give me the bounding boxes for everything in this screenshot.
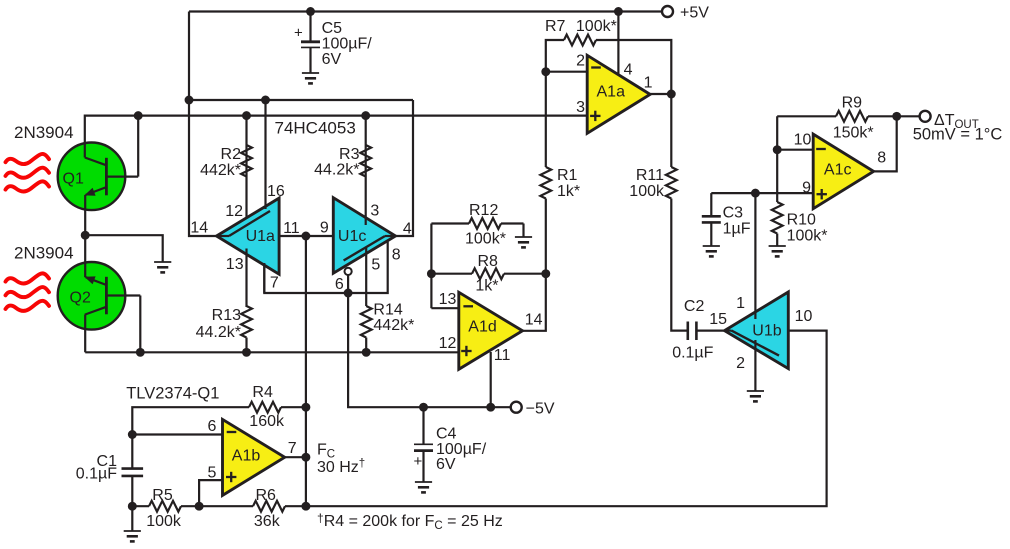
- svg-text:4: 4: [624, 62, 633, 79]
- svg-text:C5: C5: [322, 20, 343, 37]
- svg-text:8: 8: [877, 150, 886, 167]
- svg-text:R5: R5: [152, 487, 173, 504]
- svg-text:100k: 100k: [146, 513, 182, 530]
- svg-text:150k*: 150k*: [833, 125, 874, 142]
- svg-text:R9: R9: [842, 95, 863, 112]
- svg-text:30 Hz†: 30 Hz†: [317, 458, 365, 476]
- svg-text:1k*: 1k*: [475, 278, 498, 295]
- svg-text:1: 1: [736, 295, 745, 312]
- svg-text:11: 11: [283, 220, 300, 237]
- svg-text:0.1µF: 0.1µF: [76, 466, 117, 483]
- svg-text:7: 7: [288, 440, 297, 457]
- svg-text:2: 2: [576, 53, 585, 70]
- svg-text:14: 14: [190, 220, 208, 237]
- svg-text:R10: R10: [787, 212, 816, 229]
- svg-text:6V: 6V: [322, 51, 342, 68]
- svg-text:C4: C4: [436, 426, 457, 443]
- svg-text:C2: C2: [684, 298, 705, 315]
- svg-text:5: 5: [371, 257, 380, 274]
- svg-text:442k*: 442k*: [373, 317, 414, 334]
- svg-text:12: 12: [439, 335, 457, 352]
- svg-text:6: 6: [335, 276, 344, 293]
- svg-text:+: +: [414, 453, 423, 470]
- svg-text:1: 1: [644, 75, 653, 92]
- svg-text:U1b: U1b: [752, 323, 781, 340]
- svg-text:1k*: 1k*: [557, 183, 580, 200]
- svg-text:Q2: Q2: [70, 290, 91, 307]
- svg-text:100µF/: 100µF/: [322, 36, 373, 53]
- svg-text:9: 9: [802, 180, 811, 197]
- svg-text:1µF: 1µF: [723, 221, 751, 238]
- svg-text:10: 10: [794, 132, 812, 149]
- svg-text:2: 2: [736, 355, 745, 372]
- svg-text:R12: R12: [469, 202, 498, 219]
- svg-text:R1: R1: [557, 167, 578, 184]
- svg-text:R6: R6: [256, 487, 277, 504]
- svg-text:13: 13: [226, 256, 244, 273]
- svg-text:+: +: [294, 25, 303, 42]
- svg-text:100k: 100k: [629, 183, 665, 200]
- svg-text:+5V: +5V: [680, 5, 709, 22]
- svg-text:100k*: 100k*: [465, 231, 506, 248]
- svg-text:8: 8: [392, 247, 401, 264]
- svg-text:R11: R11: [636, 167, 664, 184]
- svg-text:13: 13: [439, 291, 457, 308]
- svg-text:12: 12: [225, 203, 243, 220]
- svg-text:100k*: 100k*: [576, 18, 617, 35]
- svg-text:TLV2374-Q1: TLV2374-Q1: [126, 385, 219, 403]
- svg-text:A1c: A1c: [824, 162, 852, 179]
- svg-text:6: 6: [207, 418, 216, 435]
- svg-text:R3: R3: [339, 146, 360, 163]
- svg-text:7: 7: [270, 275, 279, 292]
- svg-text:14: 14: [525, 312, 543, 329]
- svg-text:R4: R4: [252, 384, 273, 401]
- svg-text:36k: 36k: [254, 513, 281, 530]
- svg-text:2N3904: 2N3904: [14, 244, 74, 263]
- svg-text:44.2k*: 44.2k*: [196, 324, 241, 341]
- svg-text:U1c: U1c: [338, 228, 366, 245]
- svg-text:C3: C3: [723, 205, 744, 222]
- svg-text:4: 4: [403, 221, 412, 238]
- svg-text:11: 11: [494, 347, 511, 364]
- svg-text:3: 3: [576, 99, 585, 116]
- svg-text:160k: 160k: [249, 413, 285, 430]
- svg-text:−5V: −5V: [526, 401, 555, 418]
- svg-text:R14: R14: [373, 302, 402, 319]
- svg-text:44.2k*: 44.2k*: [314, 162, 359, 179]
- svg-text:A1a: A1a: [597, 84, 626, 101]
- svg-text:A1d: A1d: [468, 319, 496, 336]
- svg-text:0.1µF: 0.1µF: [672, 345, 713, 362]
- svg-text:9: 9: [320, 220, 329, 237]
- svg-text:†R4 = 200k for FC = 25 Hz: †R4 = 200k for FC = 25 Hz: [317, 511, 503, 532]
- svg-text:U1a: U1a: [246, 228, 275, 245]
- svg-text:R13: R13: [212, 307, 241, 324]
- svg-text:74HC4053: 74HC4053: [275, 119, 356, 138]
- svg-text:R2: R2: [221, 146, 242, 163]
- svg-text:50mV = 1°C: 50mV = 1°C: [913, 126, 1003, 144]
- svg-text:3: 3: [370, 203, 379, 220]
- svg-text:15: 15: [709, 311, 727, 328]
- svg-text:16: 16: [267, 183, 285, 200]
- svg-text:2N3904: 2N3904: [14, 123, 74, 142]
- svg-text:6V: 6V: [436, 456, 456, 473]
- svg-text:R8: R8: [478, 253, 499, 270]
- svg-text:R7: R7: [545, 18, 566, 35]
- svg-text:5: 5: [207, 465, 216, 482]
- svg-text:100k*: 100k*: [787, 228, 828, 245]
- svg-text:10: 10: [795, 308, 813, 325]
- svg-text:442k*: 442k*: [200, 162, 241, 179]
- svg-text:A1b: A1b: [232, 448, 261, 465]
- svg-text:Q1: Q1: [63, 170, 84, 187]
